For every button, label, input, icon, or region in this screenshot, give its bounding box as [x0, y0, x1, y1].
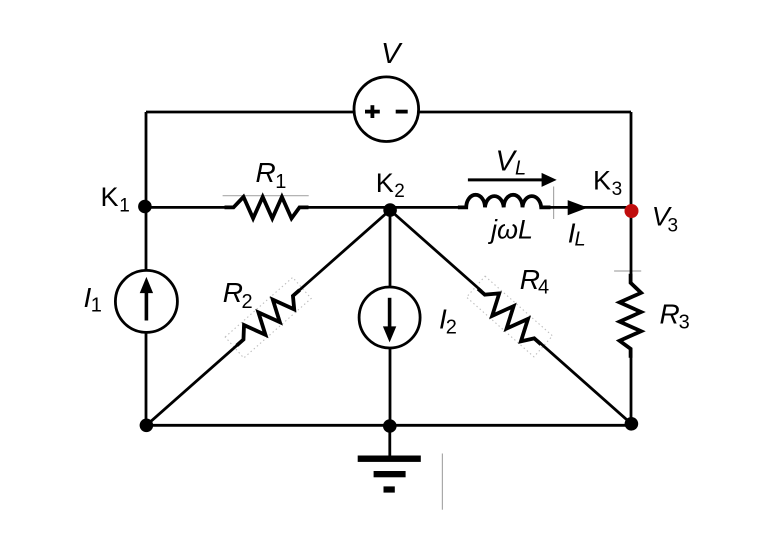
svg-text:3: 3: [612, 179, 623, 200]
svg-text:4: 4: [538, 277, 549, 299]
svg-text:3: 3: [679, 312, 690, 334]
svg-text:K: K: [593, 166, 611, 196]
svg-text:V: V: [381, 38, 403, 70]
svg-text:1: 1: [119, 195, 130, 216]
svg-text:jωL: jωL: [487, 215, 533, 245]
svg-text:R: R: [520, 264, 540, 295]
svg-text:1: 1: [275, 171, 286, 193]
svg-text:1: 1: [91, 295, 102, 317]
svg-text:K: K: [101, 182, 119, 212]
svg-text:R: R: [660, 298, 680, 329]
svg-text:K: K: [376, 168, 394, 198]
svg-text:L: L: [575, 228, 586, 250]
svg-text:R: R: [256, 157, 276, 188]
svg-text:R: R: [223, 277, 243, 308]
svg-text:2: 2: [446, 317, 457, 339]
svg-text:2: 2: [394, 181, 405, 202]
svg-text:3: 3: [668, 216, 679, 237]
svg-text:L: L: [515, 158, 526, 180]
svg-text:2: 2: [242, 291, 253, 313]
